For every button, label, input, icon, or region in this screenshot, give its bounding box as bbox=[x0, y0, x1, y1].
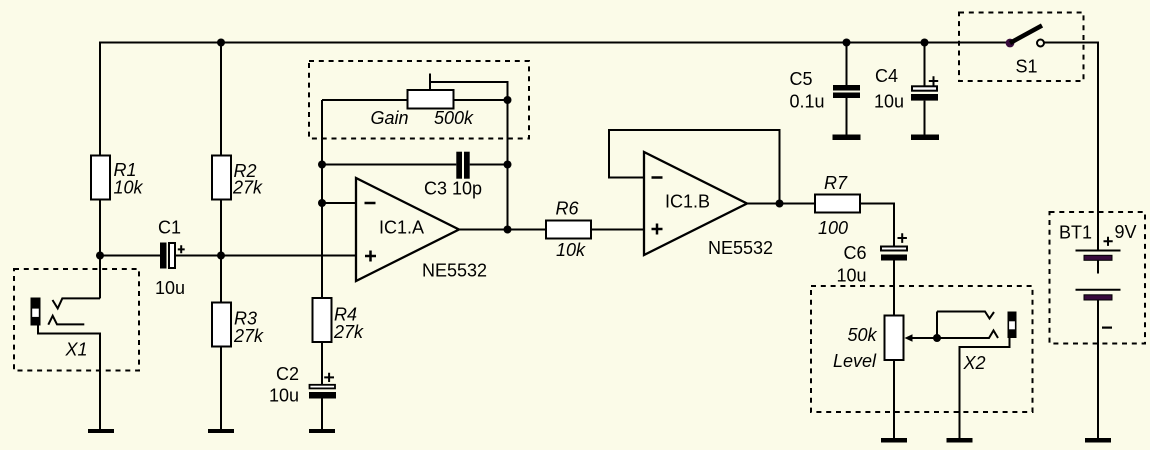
svg-text:IC1.B: IC1.B bbox=[665, 192, 710, 212]
svg-text:50k: 50k bbox=[847, 325, 877, 345]
capacitor C5 bbox=[790, 69, 861, 111]
ground BT1 bbox=[1085, 438, 1111, 443]
wire V+ top rail with corner down to R1 bbox=[100, 43, 1010, 157]
wire input signal line C1 to op-amp plus input bbox=[100, 255, 356, 257]
node C3 right bbox=[504, 161, 512, 169]
wire C5 drop from rail bbox=[846, 43, 848, 135]
svg-text:27k: 27k bbox=[233, 326, 264, 346]
resistor R2 bbox=[212, 156, 263, 200]
potentiometer Gain 500k bbox=[322, 74, 508, 129]
svg-text:Level: Level bbox=[833, 351, 877, 371]
node IC1.A output bbox=[504, 226, 512, 234]
svg-text:100: 100 bbox=[818, 218, 848, 238]
svg-text:C2: C2 bbox=[276, 364, 299, 384]
wire battery minus to ground bbox=[1097, 300, 1099, 438]
svg-text:10u: 10u bbox=[155, 278, 185, 298]
ground C5 bbox=[833, 135, 861, 141]
svg-text:10k: 10k bbox=[114, 177, 144, 197]
svg-text:Gain: Gain bbox=[371, 108, 409, 128]
wire R1 bottom to input node bbox=[99, 200, 101, 256]
svg-text:27k: 27k bbox=[333, 322, 364, 342]
potentiometer Gain 500k dashed box bbox=[309, 61, 529, 139]
wire R3 top bbox=[220, 256, 222, 303]
wire IC1.B feedback loop bbox=[609, 130, 780, 204]
wire R3 bottom to ground bbox=[220, 347, 222, 430]
wire R7 to C6 bbox=[859, 204, 894, 247]
wire C2 to ground bbox=[321, 399, 323, 430]
svg-text:C3 10p: C3 10p bbox=[424, 179, 482, 199]
svg-text:C6: C6 bbox=[843, 243, 866, 263]
svg-text:C1: C1 bbox=[158, 218, 181, 238]
svg-text:500k: 500k bbox=[434, 108, 474, 128]
switch S1 dashed box bbox=[959, 13, 1084, 82]
svg-text:IC1.A: IC1.A bbox=[379, 218, 424, 238]
wire right feedback column (Gain pot right to output node) bbox=[507, 100, 509, 230]
ground X1 bbox=[88, 429, 114, 433]
wire C3 left lead bbox=[322, 164, 456, 166]
node C4 rail bbox=[921, 39, 929, 47]
node IC1.B output bbox=[776, 200, 784, 208]
op-amp IC1.A bbox=[356, 178, 487, 281]
svg-text:R7: R7 bbox=[824, 173, 848, 193]
wire Level pot to ground bbox=[893, 360, 895, 438]
capacitor C4 bbox=[874, 66, 938, 112]
node R2 top rail bbox=[217, 39, 225, 47]
Level pot and X2 dashed box bbox=[811, 286, 1033, 412]
svg-text:NE5532: NE5532 bbox=[422, 260, 487, 280]
svg-text:R6: R6 bbox=[556, 198, 580, 218]
svg-text:27k: 27k bbox=[232, 178, 263, 198]
svg-text:C5: C5 bbox=[790, 69, 813, 89]
resistor R7 bbox=[815, 173, 860, 238]
svg-text:C4: C4 bbox=[875, 66, 898, 86]
switch S1 bbox=[1006, 26, 1044, 77]
jack X1 dashed box bbox=[14, 269, 139, 371]
wire C3 right lead bbox=[470, 164, 508, 166]
resistor R3 bbox=[212, 303, 264, 347]
potentiometer Level 50k bbox=[833, 316, 937, 372]
capacitor C1 bbox=[155, 218, 185, 299]
wire S1 to battery plus bbox=[1045, 43, 1099, 251]
wire C4 drop from rail bbox=[924, 43, 926, 135]
wire R6 to IC1.B plus input bbox=[591, 229, 645, 231]
resistor R6 bbox=[546, 198, 591, 259]
ground X2 bbox=[947, 438, 973, 443]
resistor R1 bbox=[91, 156, 144, 200]
wire R2 bottom bbox=[220, 200, 222, 256]
jack X1 bbox=[31, 256, 101, 430]
svg-text:10k: 10k bbox=[556, 240, 586, 260]
op-amp IC1.B bbox=[644, 152, 773, 258]
wire R2 top to rail bbox=[220, 43, 222, 157]
svg-text:10u: 10u bbox=[874, 92, 904, 112]
svg-text:X2: X2 bbox=[963, 353, 986, 373]
node Level wiper / X2 bbox=[933, 334, 941, 342]
capacitor C3 bbox=[424, 152, 482, 199]
node C3 left / minus net bbox=[318, 161, 326, 169]
wire battery middle stub bbox=[1097, 260, 1099, 273]
svg-text:0.1u: 0.1u bbox=[790, 91, 825, 111]
battery BT1 bbox=[1059, 222, 1137, 328]
svg-text:S1: S1 bbox=[1016, 56, 1038, 76]
wire IC1.B output to R7 bbox=[747, 203, 815, 205]
wire R4 bottom to C2 bbox=[321, 342, 323, 385]
ground Level pot bbox=[881, 438, 907, 443]
svg-text:9V: 9V bbox=[1115, 222, 1137, 242]
battery BT1 dashed box bbox=[1050, 212, 1146, 344]
svg-text:NE5532: NE5532 bbox=[708, 238, 773, 258]
wire minus input of IC1.A bbox=[322, 202, 356, 204]
resistor R4 bbox=[313, 298, 365, 342]
ground C4 bbox=[911, 135, 939, 141]
node C5 rail bbox=[843, 39, 851, 47]
wire feedback left column (Gain pot left to R4 top) bbox=[321, 100, 323, 298]
wire IC1.A output to R6 bbox=[459, 229, 547, 231]
ground C2 bbox=[309, 429, 335, 433]
node C1/R2/R3 junction bbox=[217, 252, 225, 260]
svg-text:BT1: BT1 bbox=[1059, 222, 1092, 242]
node input R1/X1/C1 bbox=[96, 252, 104, 260]
jack X2 bbox=[937, 312, 1017, 439]
node minus input junction bbox=[318, 199, 326, 207]
svg-text:10u: 10u bbox=[269, 386, 299, 406]
capacitor C6 bbox=[836, 233, 907, 285]
wire C6 to Level pot bbox=[893, 261, 895, 316]
svg-text:10u: 10u bbox=[836, 266, 866, 286]
capacitor C2 bbox=[269, 364, 336, 406]
ground R3 bbox=[208, 429, 234, 433]
node Gain pot right bbox=[504, 96, 512, 104]
svg-text:X1: X1 bbox=[65, 340, 88, 360]
